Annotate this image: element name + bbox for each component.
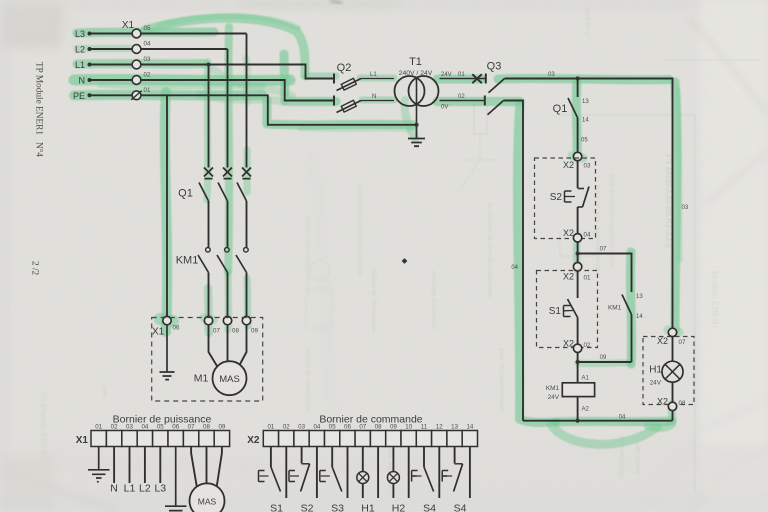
contact Q1 aux 13-14 <box>568 79 578 153</box>
switch Q3 pole 2 <box>485 96 504 115</box>
wire L2 input row <box>88 47 228 51</box>
fuse-switch Q2 pole N <box>334 96 394 113</box>
wire labels L1 N at Q2 <box>370 72 377 100</box>
pin numbers X2 strip 01-14 <box>267 423 473 430</box>
node junction 03/Q1aux <box>576 76 580 80</box>
terminal X1:07 <box>204 316 212 324</box>
highlighter trace N row <box>74 79 290 80</box>
ghost relay sketch <box>474 104 487 134</box>
bornier X2 strip <box>263 431 477 447</box>
test cross on wire 01 <box>472 74 482 83</box>
switch Q3 pole 1 <box>486 74 505 93</box>
disconnect Q1 pole 1 <box>199 65 213 248</box>
node L1 junction <box>207 63 211 67</box>
wire 03 top <box>505 79 673 329</box>
wire T1 0V output 02 <box>440 100 485 102</box>
lamp H1 <box>662 337 683 403</box>
highlighter pole1 vertical <box>207 62 208 200</box>
highlighter X2-08 to rail <box>648 404 672 428</box>
disconnect Q1 pole 3 <box>237 34 251 248</box>
terminal X2:08 <box>668 402 676 421</box>
wire PE input row <box>88 93 417 125</box>
pushbutton S4b below X2 <box>442 447 470 499</box>
wire N input row <box>88 78 335 101</box>
bornier X1 terminal 05 L3 <box>159 447 161 484</box>
disconnect Q1 pole 2 <box>218 49 232 247</box>
highlighter N step down and to Q2 <box>284 54 336 102</box>
terminal X1:01 PE slashed <box>131 91 142 100</box>
node rail junction <box>576 419 580 423</box>
transformer T1 <box>395 76 439 125</box>
fuse-switch Q2 pole L1 <box>334 74 394 91</box>
dashed box H1 <box>643 337 694 405</box>
bornier X1 terminal 04 L2 <box>144 447 146 484</box>
contact KM1 aux 13-14 <box>622 295 632 363</box>
pin labels X1 05-01 <box>144 25 151 94</box>
wire T1 24V output 01 <box>440 78 486 80</box>
bornier X1 terminal 06 ground <box>165 447 187 511</box>
dashed box S2 <box>535 158 596 239</box>
wire 04 bottom rail <box>523 420 673 422</box>
dashed box motor M1 <box>152 318 263 402</box>
node T1 ground junction <box>415 123 419 127</box>
wire labels 02 0V <box>441 94 465 111</box>
terminal X1:03 <box>132 60 141 69</box>
bornier X1 terminal 01 ground <box>88 447 110 483</box>
highlighter trace L3 row <box>77 32 214 33</box>
highlighter trace L1 row <box>77 59 205 69</box>
wire 04 left vertical <box>504 101 524 421</box>
terminal X2:03 <box>573 152 581 160</box>
highlighter big top arc <box>145 18 305 76</box>
highlighter PE rail to transformer ground <box>267 100 414 125</box>
highlighter around transformer <box>360 78 394 100</box>
highlighter blobs on terminals <box>572 156 583 158</box>
motor M1 MAS <box>209 325 247 395</box>
wire L1 input row <box>88 63 335 79</box>
mark diamond center <box>402 258 408 264</box>
ghost frame lines <box>694 115 696 492</box>
labels KM1 aux 13 14 <box>608 294 643 320</box>
pin labels 13 14 05 <box>581 99 589 144</box>
highlighter right vertical 03 <box>675 82 677 330</box>
bornier X1 terminal 02 N <box>113 447 115 484</box>
bornier X1 terminal 03 L1 <box>129 447 131 484</box>
terminal X1:02 <box>132 76 141 85</box>
terminal X2:02 <box>573 344 581 352</box>
wire labels 24V 01 <box>441 72 465 78</box>
highlighter pole3 vertical <box>244 150 251 192</box>
highlighter trace PE row <box>74 90 262 101</box>
highlighter trace L2 start <box>77 45 130 52</box>
lamp H1 below X2 <box>357 447 378 499</box>
highlighter left vertical 04 <box>518 104 556 422</box>
highlighter pole2 vertical <box>228 27 229 272</box>
highlighter 0V line <box>437 97 520 106</box>
net labels N L1 L2 L3 bottom <box>110 483 166 495</box>
lamp H2 below X2 <box>387 447 408 499</box>
labels KM1 coil A1 A2 24V <box>546 376 590 413</box>
ground below T1 <box>408 125 425 146</box>
pushbutton S4a below X2 <box>412 447 440 499</box>
wire PE drop to X1:06 <box>166 95 168 316</box>
highlighter wire 09 <box>578 359 630 367</box>
terminal X2:01 <box>573 263 581 271</box>
terminal X2:07 <box>668 328 676 336</box>
highlighter Q1 aux vertical <box>572 82 582 158</box>
pushbutton S1 below X2 <box>259 447 287 499</box>
terminal X2:04 <box>573 234 581 242</box>
pushbutton S2 NC <box>565 161 590 234</box>
wire node 07 <box>576 242 632 292</box>
highlighter 24V line to Q3 and 03 line <box>437 75 482 84</box>
bornier X1 motor M1 <box>190 447 225 512</box>
terminal X1:05 <box>132 29 141 38</box>
highlighter X1-06 drop <box>165 92 167 332</box>
contactor KM1 pole 1 <box>198 248 210 317</box>
pin numbers X1 strip 01-09 <box>95 423 226 430</box>
contactor KM1 pole 3 <box>236 248 248 317</box>
terminal X1:06 <box>163 316 171 324</box>
pushbutton S3 below X2 <box>320 447 348 499</box>
labels S1 S2 S3 H1 H2 S4 S4 bottom <box>270 503 467 512</box>
terminal X1:09 <box>242 316 250 324</box>
contactor KM1 pole 2 <box>217 248 229 317</box>
pushbutton S1 NO <box>564 271 578 344</box>
highlighter L1 to Q2 <box>306 73 336 80</box>
dashed box S1 <box>537 271 598 348</box>
terminal X1:04 <box>132 45 141 54</box>
highlighter bottom rail 04 with swirl <box>556 421 672 422</box>
bornier X1 strip <box>91 431 230 447</box>
wire node 09 <box>576 353 632 383</box>
ground below X1:06 <box>160 325 175 380</box>
terminal X1:08 <box>223 316 231 324</box>
highlighter KM1 aux vertical <box>630 252 631 364</box>
highlighter crossing smudges <box>212 68 292 96</box>
wire L3 input row <box>88 32 247 36</box>
coil KM1 A1-A2 <box>562 383 594 421</box>
pushbutton S2 below X2 <box>289 447 317 499</box>
